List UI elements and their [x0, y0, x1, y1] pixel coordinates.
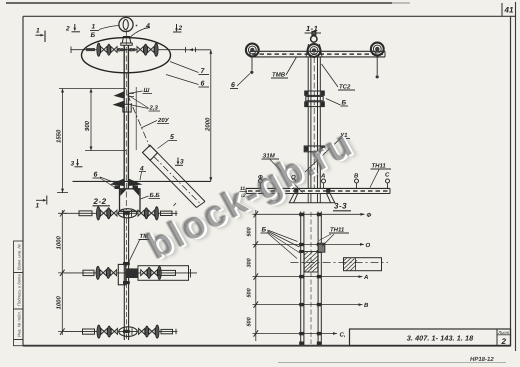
- frame right inner: [510, 16, 512, 345]
- svg-text:В: В: [364, 302, 369, 309]
- under-frame annotation: [278, 362, 506, 364]
- svg-text:3. 407. 1- 143. 1. 18: 3. 407. 1- 143. 1. 18: [407, 334, 473, 343]
- svg-text:500: 500: [247, 317, 253, 326]
- page number box tick: [501, 3, 503, 16]
- hatched wood section between rails: [304, 252, 318, 273]
- string 3 (bottom): [65, 327, 178, 337]
- svg-text:ТС2: ТС2: [339, 84, 351, 91]
- dimension 1000/1000: [58, 210, 67, 335]
- svg-text:С: С: [385, 172, 390, 179]
- svg-text:2,3: 2,3: [149, 105, 159, 112]
- conductor line: [71, 47, 196, 54]
- svg-text:О: О: [366, 242, 371, 249]
- svg-text:НР18-12: НР18-12: [470, 356, 494, 363]
- svg-text:2000: 2000: [205, 117, 212, 132]
- insulator chain left: [97, 43, 117, 56]
- frame left: [22, 16, 24, 345]
- svg-text:ТМВ: ТМВ: [272, 72, 286, 79]
- insulator chain right: [137, 43, 158, 56]
- sheet top border: [23, 15, 516, 17]
- collar B: [304, 146, 325, 152]
- dimension 2000: [185, 50, 211, 182]
- svg-text:В: В: [354, 173, 359, 180]
- svg-text:5: 5: [170, 134, 174, 141]
- svg-text:Подпись и дата: Подпись и дата: [17, 274, 22, 306]
- collar A (three plates): [305, 91, 325, 107]
- svg-text:300: 300: [247, 258, 253, 267]
- svg-text:500: 500: [247, 227, 253, 236]
- rungs + bolts: [299, 213, 321, 345]
- clamp diamonds at pole: [123, 48, 131, 51]
- extension line right of pole: [135, 87, 137, 150]
- top pin circle: [119, 17, 133, 31]
- svg-text:А: А: [363, 274, 368, 281]
- svg-text:3: 3: [71, 161, 75, 168]
- right pulley: [371, 43, 384, 56]
- phase hooks on lower crossarm: [261, 183, 388, 188]
- svg-text:1000: 1000: [56, 235, 63, 249]
- svg-text:1: 1: [36, 203, 40, 210]
- top crossarm band: [250, 51, 385, 57]
- string 2 (middle): [65, 264, 198, 284]
- section marker 1 (top): [36, 31, 46, 43]
- svg-text:6: 6: [231, 82, 235, 89]
- svg-text:Б: Б: [342, 100, 347, 107]
- extra bolts on 2-2 pole at string levels: [123, 212, 130, 334]
- pin cap: [121, 37, 132, 46]
- clamp blacks at crossarm: [110, 179, 143, 190]
- svg-text:Б.Б: Б.Б: [150, 192, 161, 199]
- pulley drop lines: [252, 57, 377, 75]
- svg-text:ТН11: ТН11: [330, 227, 345, 234]
- watermark block-gb.ru: [140, 59, 477, 269]
- svg-text:4: 4: [145, 23, 150, 30]
- section marker 2 (right, arrow down): [173, 24, 182, 32]
- bracket at right rail: [318, 243, 325, 252]
- bracket plate rect: [123, 104, 131, 112]
- dimension 900 / 1550: [57, 89, 126, 193]
- svg-text:2-2: 2-2: [93, 197, 107, 206]
- svg-text:Инв. № подл.: Инв. № подл.: [17, 311, 22, 337]
- link rings at pole: [118, 48, 135, 51]
- pole 1-1: [308, 57, 320, 189]
- guy brace dashed axis: [128, 95, 150, 148]
- svg-text:Ш: Ш: [144, 87, 150, 94]
- svg-text:6: 6: [94, 172, 98, 179]
- svg-text:Взам. инв. №: Взам. инв. №: [17, 244, 22, 270]
- svg-text:1: 1: [92, 24, 96, 31]
- crossarm line of view 1: [73, 180, 211, 182]
- svg-text:С,: С,: [340, 332, 346, 339]
- frame bottom: [23, 345, 511, 347]
- svg-text:6: 6: [201, 81, 205, 88]
- center pulley with pin: [308, 44, 321, 57]
- view marker 1 (bottom-left): [36, 196, 47, 205]
- svg-text:1000: 1000: [56, 295, 63, 309]
- top scan line: [6, 2, 392, 4]
- lower crossarm band: [246, 188, 390, 193]
- svg-text:20У: 20У: [157, 117, 170, 124]
- left pulley: [246, 44, 259, 57]
- svg-text:Б: Б: [262, 227, 267, 234]
- level lines: [253, 214, 365, 333]
- svg-text:7: 7: [201, 68, 206, 75]
- svg-text:41: 41: [504, 6, 514, 15]
- string 1 (top): [65, 209, 178, 218]
- svg-text:1: 1: [36, 28, 40, 35]
- pole (view 1): [124, 30, 128, 210]
- svg-text:900: 900: [84, 120, 91, 131]
- svg-text:2: 2: [65, 26, 70, 33]
- pole rails: [301, 212, 322, 346]
- svg-text:3: 3: [180, 159, 184, 166]
- pole butt box: [120, 189, 141, 212]
- svg-text:3-3: 3-3: [334, 202, 347, 211]
- svg-text:2: 2: [178, 25, 183, 32]
- dimension column 3-3: [254, 210, 259, 341]
- svg-text:ТН11: ТН11: [372, 163, 387, 170]
- svg-text:1550: 1550: [56, 129, 63, 143]
- svg-text:2: 2: [501, 337, 507, 346]
- crossarm outline blob (plan view): [82, 38, 171, 73]
- svg-text:500: 500: [247, 288, 253, 297]
- detached wood bar: [291, 258, 389, 271]
- pole 2-2: [124, 211, 128, 340]
- section marker 3 (right): [175, 158, 183, 166]
- base skirt below crossarm: [289, 194, 335, 203]
- svg-text:Лист: Лист: [497, 330, 509, 335]
- svg-text:Ф: Ф: [367, 212, 372, 219]
- svg-text:Б: Б: [91, 32, 96, 39]
- brace top plate (rotated square): [143, 145, 158, 160]
- brace band: [150, 153, 205, 208]
- mid bracket black clamps: [113, 91, 125, 108]
- frame right outer: [515, 2, 517, 351]
